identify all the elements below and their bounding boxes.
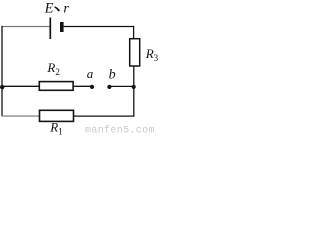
svg-text:2: 2	[55, 67, 60, 77]
svg-text:manfen5.com: manfen5.com	[85, 125, 155, 137]
svg-text:R: R	[145, 46, 154, 61]
svg-text:a: a	[87, 66, 94, 81]
svg-text:b: b	[109, 67, 116, 82]
svg-text:1: 1	[58, 126, 63, 136]
svg-text:r: r	[63, 1, 69, 16]
svg-text:3: 3	[154, 53, 158, 63]
svg-text:R: R	[49, 120, 58, 135]
svg-text:R: R	[46, 60, 55, 75]
svg-text:E: E	[44, 0, 54, 16]
